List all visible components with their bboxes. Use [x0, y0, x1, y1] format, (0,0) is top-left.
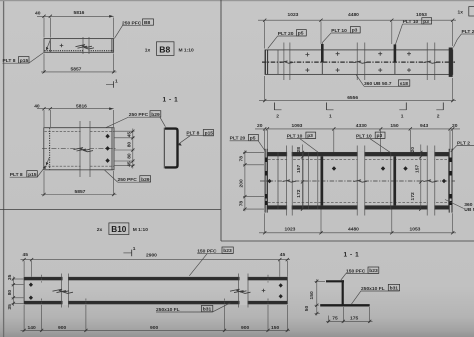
svg-text:80: 80 — [126, 153, 132, 159]
svg-text:b31: b31 — [390, 286, 399, 292]
svg-text:140: 140 — [28, 325, 36, 331]
svg-text:1: 1 — [401, 114, 404, 120]
breaks plan — [284, 50, 289, 74]
svg-text:2: 2 — [437, 114, 440, 120]
svg-text:4480: 4480 — [348, 227, 359, 233]
svg-text:UB 5: UB 5 — [464, 207, 474, 213]
svg-text:900: 900 — [150, 325, 158, 331]
svg-text:M 1:10: M 1:10 — [179, 47, 195, 53]
top flange band — [24, 277, 287, 280]
stiffener pair + plate bars — [302, 152, 304, 209]
svg-text:150: 150 — [309, 291, 315, 299]
section mark 1 (above view2) — [106, 84, 114, 86]
left dim stack 35/80/35 — [12, 278, 24, 280]
svg-text:150: 150 — [390, 123, 398, 129]
top flange band — [267, 152, 448, 156]
bottom flange band — [24, 301, 287, 304]
svg-text:40: 40 — [35, 11, 41, 17]
dim line top — [37, 15, 114, 17]
weld diamonds B10 — [29, 283, 33, 287]
right inner line — [111, 128, 113, 170]
interior dim stack right 20/157/172 — [420, 145, 422, 210]
center dash-dot — [262, 61, 455, 63]
web — [342, 280, 344, 305]
svg-text:78: 78 — [238, 156, 244, 162]
svg-text:s18: s18 — [400, 81, 408, 87]
top edge line — [0, 0, 474, 1]
dashed flange lines — [45, 130, 114, 132]
svg-text:75: 75 — [332, 315, 338, 321]
svg-text:78: 78 — [238, 201, 244, 207]
PLT10 plate bars — [321, 44, 324, 62]
svg-text:1053: 1053 — [416, 12, 427, 18]
bottom weld dotted strip — [45, 50, 114, 52]
svg-text:1053: 1053 — [410, 227, 421, 233]
svg-text:150: 150 — [271, 325, 279, 331]
left end plate dotted — [49, 128, 51, 169]
section marks 2 1 1 2 — [273, 103, 275, 111]
center dash-dot — [260, 180, 455, 182]
break gaps — [53, 274, 251, 308]
svg-text:50: 50 — [304, 305, 310, 311]
extension lines — [43, 110, 45, 127]
svg-text:157: 157 — [296, 165, 302, 173]
beam elevation outline — [267, 152, 448, 209]
bottom dims 1023 4480 1053 — [264, 213, 266, 233]
svg-text:28: 28 — [296, 147, 302, 153]
svg-text:1023: 1023 — [288, 12, 299, 18]
svg-text:1x: 1x — [458, 10, 464, 16]
svg-text:35: 35 — [7, 304, 13, 310]
beam B10 outline — [24, 277, 287, 304]
extension lines — [43, 18, 45, 38]
frame divider horizontal left — [0, 209, 221, 211]
dim 5857 bottom view2 — [43, 171, 45, 196]
svg-text:172: 172 — [296, 189, 302, 197]
svg-text:4480: 4480 — [348, 12, 359, 18]
svg-text:B10: B10 — [111, 225, 126, 234]
bottom dims 140 900 900 900 150 — [23, 305, 25, 332]
svg-text:1093: 1093 — [292, 123, 303, 129]
svg-text:1023: 1023 — [285, 227, 296, 233]
svg-text:172: 172 — [410, 192, 416, 200]
svg-text:20: 20 — [410, 147, 416, 153]
beam B8 outline — [44, 39, 114, 53]
weld diamonds elevation — [332, 166, 336, 171]
svg-text:5857: 5857 — [75, 189, 86, 195]
section mark 1 — [123, 252, 131, 254]
svg-text:45: 45 — [23, 252, 29, 258]
dashed bolt rows — [268, 158, 448, 160]
bottom flange band — [267, 205, 448, 209]
svg-text:80: 80 — [7, 290, 13, 296]
channel section box — [165, 129, 178, 168]
small bolt cross right — [262, 289, 266, 293]
frame divider vertical — [220, 0, 222, 241]
svg-text:1 - 1: 1 - 1 — [163, 97, 179, 104]
svg-text:M 1:10: M 1:10 — [133, 227, 149, 233]
left end plate — [264, 50, 266, 75]
beam B8 plan outline — [44, 128, 114, 170]
svg-text:35: 35 — [7, 274, 13, 280]
bolt crosses plan — [305, 52, 411, 72]
svg-text:1x: 1x — [145, 47, 151, 53]
bottom dim 75 175 — [328, 316, 330, 323]
svg-text:b23: b23 — [223, 248, 232, 254]
interior dim stack left 28/157/172 — [302, 145, 304, 210]
svg-text:200: 200 — [238, 179, 244, 187]
end plates — [264, 149, 266, 213]
weld diamonds — [105, 134, 109, 139]
svg-text:4330: 4330 — [356, 123, 367, 129]
break lines view2 — [81, 128, 90, 169]
right inner end line — [111, 39, 113, 53]
breaks elevation — [287, 152, 292, 210]
right end plate — [449, 48, 453, 77]
left dim 150 / 50 — [315, 280, 326, 282]
svg-text:45: 45 — [126, 161, 132, 167]
svg-text:943: 943 — [420, 123, 428, 129]
top flange — [326, 280, 344, 282]
weld arrow left — [46, 157, 49, 165]
svg-text:2900: 2900 — [146, 253, 157, 259]
left edge line — [3, 0, 5, 337]
bolt dashed marks at flanges — [42, 275, 268, 307]
svg-text:20: 20 — [257, 123, 263, 129]
svg-text:20: 20 — [452, 123, 458, 129]
svg-text:45: 45 — [126, 132, 132, 138]
svg-text:B8: B8 — [159, 44, 170, 54]
dim 6556 — [264, 76, 266, 102]
break lines — [84, 39, 89, 52]
svg-text:1: 1 — [133, 246, 136, 252]
svg-text:1: 1 — [329, 114, 332, 120]
svg-text:6556: 6556 — [347, 95, 358, 101]
svg-text:B8: B8 — [144, 20, 151, 26]
svg-text:1: 1 — [115, 79, 118, 85]
svg-text:900: 900 — [58, 325, 66, 331]
weld arrow — [47, 41, 51, 50]
ext lines to bottom dim — [42, 307, 268, 332]
leader 250 PFC B8 — [114, 26, 122, 39]
center dash-dot — [42, 148, 116, 150]
svg-text:900: 900 — [241, 325, 249, 331]
svg-text:2: 2 — [276, 114, 279, 120]
right dim stack 45/80/80/45 — [115, 130, 135, 132]
frame divider horizontal right — [221, 240, 474, 242]
svg-text:80: 80 — [126, 142, 132, 148]
svg-text:1 - 1: 1 - 1 — [344, 252, 360, 259]
left dim stack 78/200/78 — [243, 151, 264, 153]
dim line — [37, 108, 114, 110]
bolt cross — [60, 44, 64, 48]
svg-text:2x: 2x — [97, 227, 103, 233]
left end plate line — [49, 39, 51, 53]
svg-text:157: 157 — [414, 165, 420, 173]
bottom plate — [320, 304, 370, 306]
svg-text:5857: 5857 — [71, 66, 82, 72]
svg-text:175: 175 — [350, 315, 358, 321]
svg-text:45: 45 — [280, 252, 286, 258]
beam plan outline — [265, 50, 453, 75]
svg-text:b31: b31 — [203, 307, 212, 313]
svg-text:5816: 5816 — [74, 10, 85, 16]
dim 5857 bottom — [43, 54, 45, 74]
